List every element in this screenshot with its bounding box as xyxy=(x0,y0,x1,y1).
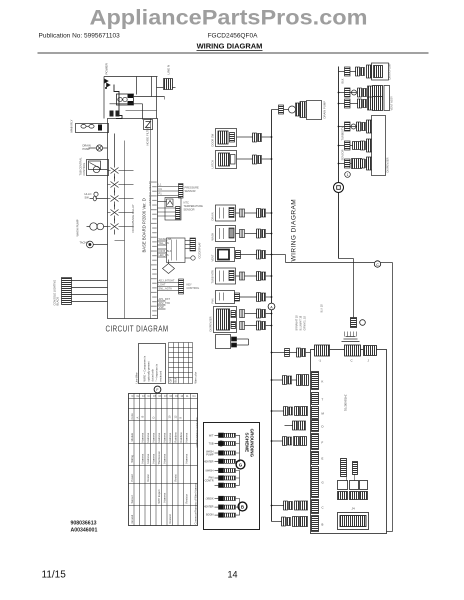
svg-text:CONTROL: CONTROL xyxy=(82,162,86,175)
svg-text:C: C xyxy=(351,359,353,363)
svg-text:SNL_AGTA: SNL_AGTA xyxy=(159,287,173,291)
svg-text:/WASH: /WASH xyxy=(205,470,213,473)
svg-text:DOOR SW: DOOR SW xyxy=(211,133,215,146)
svg-text:Harness: Harness xyxy=(152,453,156,463)
svg-text:DRAIN: DRAIN xyxy=(211,212,215,220)
svg-text:FAN: FAN xyxy=(211,298,215,303)
svg-text:C: C xyxy=(376,263,379,267)
svg-text:Module: Module xyxy=(130,432,134,441)
svg-text:FGCD2456QF0A: FGCD2456QF0A xyxy=(208,33,259,40)
svg-text:P1: P1 xyxy=(159,192,163,196)
svg-text:Harness: Harness xyxy=(141,432,145,442)
svg-text:F: F xyxy=(322,441,324,445)
svg-text:Harness: Harness xyxy=(146,432,150,442)
svg-text:Power: Power xyxy=(130,474,134,481)
svg-text:MAIN RLY: MAIN RLY xyxy=(70,119,74,132)
svg-text:NTC: NTC xyxy=(184,201,189,205)
svg-text:FID B_BLK: FID B_BLK xyxy=(159,249,172,253)
svg-text:Publication No: 5995671103: Publication No: 5995671103 xyxy=(39,33,121,40)
svg-text:GENERAL RELAY: GENERAL RELAY xyxy=(148,181,152,206)
svg-text:1: 1 xyxy=(347,173,349,177)
svg-text:optionally present: optionally present xyxy=(147,361,151,382)
svg-text:LINE N: LINE N xyxy=(167,65,171,75)
svg-text:C: C xyxy=(322,506,324,510)
svg-text:WASH PUMP: WASH PUMP xyxy=(76,219,80,236)
svg-text:SENSOR: SENSOR xyxy=(184,208,195,212)
svg-text:AP2_TXD: AP2_TXD xyxy=(159,301,171,305)
svg-text:PRESSURE: PRESSURE xyxy=(185,186,200,190)
svg-text:D: D xyxy=(152,417,156,419)
svg-text:ADJ_INTGHT: ADJ_INTGHT xyxy=(159,279,175,283)
svg-text:* = Important is: * = Important is xyxy=(155,363,159,381)
svg-text:VENT ASSY: VENT ASSY xyxy=(390,96,394,111)
svg-text:LGHT: LGHT xyxy=(159,283,166,287)
svg-text:HEATER: HEATER xyxy=(204,461,214,464)
svg-text:WIRING DIAGRAM: WIRING DIAGRAM xyxy=(197,42,263,51)
svg-text:CC/DISPLAY: CC/DISPLAY xyxy=(198,242,202,259)
svg-text:TURBIDITY: TURBIDITY xyxy=(341,127,345,141)
svg-text:D: D xyxy=(322,425,324,429)
svg-text:TSB: TSB xyxy=(209,443,214,446)
svg-text:DRAIN PUMP: DRAIN PUMP xyxy=(323,101,327,119)
svg-text:POWER: POWER xyxy=(105,62,109,74)
svg-text:Thermostat: Thermostat xyxy=(157,451,161,464)
svg-text:LED_RS: LED_RS xyxy=(159,253,169,257)
svg-text:Conn: Conn xyxy=(130,413,134,420)
svg-text:K: K xyxy=(322,380,324,384)
svg-text:CONTROL: CONTROL xyxy=(187,286,200,290)
svg-text:LATCH: LATCH xyxy=(211,160,215,168)
svg-text:-1: -1 xyxy=(319,359,322,363)
svg-text:WASH_AB: WASH_AB xyxy=(159,237,172,241)
svg-text:BLK: BLK xyxy=(341,78,345,83)
svg-text:CONTR: CONTR xyxy=(205,480,214,483)
svg-text:Harness: Harness xyxy=(152,432,156,442)
svg-text:G: G xyxy=(322,481,324,485)
svg-text:E: E xyxy=(322,457,324,461)
svg-text:Harness: Harness xyxy=(157,432,161,442)
svg-text:restricted: restricted xyxy=(159,370,163,381)
svg-text:AppliancePartsPros.com: AppliancePartsPros.com xyxy=(90,6,368,30)
svg-text:CONSOLE LIGHTING: CONSOLE LIGHTING xyxy=(53,280,57,306)
svg-text:VENT: VENT xyxy=(211,254,215,261)
svg-text:BLU/WHT 18: BLU/WHT 18 xyxy=(300,315,303,330)
svg-text:908036613: 908036613 xyxy=(71,521,97,527)
svg-text:TACHO: TACHO xyxy=(80,241,89,245)
svg-text:WTP Expert: WTP Expert xyxy=(157,489,161,503)
svg-text:B: B xyxy=(322,523,324,527)
svg-text:WASH: WASH xyxy=(211,233,215,241)
svg-text:BASE BOARD P/2006 Ver. D: BASE BOARD P/2006 Ver. D xyxy=(142,198,147,252)
svg-text:WIRING DIAGRAM: WIRING DIAGRAM xyxy=(291,199,298,262)
svg-text:BRN/WHT 18: BRN/WHT 18 xyxy=(296,315,299,331)
svg-text:11/15: 11/15 xyxy=(42,570,67,581)
svg-text:KEY: KEY xyxy=(187,283,192,287)
svg-text:DISPENSER: DISPENSER xyxy=(209,316,213,331)
svg-text:DRAIN PUMP: DRAIN PUMP xyxy=(388,63,392,80)
svg-text:Resist: Resist xyxy=(146,474,150,481)
svg-text:TUB CENTRAL: TUB CENTRAL xyxy=(79,157,83,176)
svg-text:DOOR/BAKE RELAY: DOOR/BAKE RELAY xyxy=(131,204,135,232)
svg-text:HI-LO: HI-LO xyxy=(85,192,92,196)
svg-text:Resistor: Resistor xyxy=(168,514,172,524)
svg-text:TEMPERATURE: TEMPERATURE xyxy=(184,204,204,208)
svg-text:A: A xyxy=(136,417,140,419)
svg-text:14: 14 xyxy=(228,570,238,580)
svg-text:GRY: GRY xyxy=(169,377,173,383)
svg-text:Harness: Harness xyxy=(168,432,172,442)
svg-text:Connector/Harness of Wire Harn: Connector/Harness of Wire Harness xyxy=(194,482,198,524)
svg-text:HEATER: HEATER xyxy=(204,506,214,509)
svg-text:PUMP: PUMP xyxy=(206,454,214,457)
svg-text:W/T: W/T xyxy=(209,435,214,438)
svg-text:PUMP: PUMP xyxy=(83,147,91,151)
svg-text:Harness: Harness xyxy=(163,492,167,502)
svg-text:T: T xyxy=(322,398,324,402)
svg-text:Harness: Harness xyxy=(185,453,189,463)
svg-text:VSP: VSP xyxy=(159,305,164,309)
svg-text:WIRE = Component is: WIRE = Component is xyxy=(143,355,147,381)
svg-text:dotted with: dotted with xyxy=(151,368,155,381)
svg-text:Rainbow: Rainbow xyxy=(179,432,183,442)
svg-text:Wiring: Wiring xyxy=(130,455,134,463)
svg-text:Line Wire: Line Wire xyxy=(135,372,139,384)
svg-text:/J/BOX: /J/BOX xyxy=(206,498,214,501)
svg-text:BLK: BLK xyxy=(174,377,178,382)
svg-text:Harness: Harness xyxy=(163,432,167,442)
svg-text:SW: SW xyxy=(85,195,90,199)
svg-text:AP1_RXT: AP1_RXT xyxy=(159,297,171,301)
svg-text:SCHEME: SCHEME xyxy=(245,433,250,453)
svg-text:DRAIN: DRAIN xyxy=(83,144,91,148)
svg-text:YEL_GN: YEL_GN xyxy=(159,241,169,245)
svg-text:B: B xyxy=(241,505,244,510)
svg-text:J4: J4 xyxy=(352,507,356,511)
svg-text:N1: N1 xyxy=(159,187,163,191)
svg-text:NOISE FILTER: NOISE FILTER xyxy=(146,127,150,146)
svg-text:SENSOR: SENSOR xyxy=(341,149,345,160)
svg-text:Resist: Resist xyxy=(174,474,178,481)
svg-text:TURB MTR: TURB MTR xyxy=(211,270,215,284)
svg-text:SENSOR: SENSOR xyxy=(185,189,196,193)
svg-text:BOON: BOON xyxy=(206,514,214,517)
svg-text:Wire color: Wire color xyxy=(194,372,198,384)
svg-text:2453600701: 2453600701 xyxy=(344,395,348,412)
svg-text:CIRCUIT DIAGRAM: CIRCUIT DIAGRAM xyxy=(106,325,169,334)
svg-text:Harness: Harness xyxy=(163,453,167,463)
svg-text:Resistor: Resistor xyxy=(185,494,189,504)
svg-text:DISPENSER: DISPENSER xyxy=(386,157,390,172)
svg-text:Sensor: Sensor xyxy=(130,495,134,503)
svg-text:Rainbow: Rainbow xyxy=(174,432,178,442)
svg-text:Harness: Harness xyxy=(185,432,189,442)
svg-text:G: G xyxy=(239,463,243,468)
svg-text:B: B xyxy=(141,416,145,418)
svg-text:A00346001: A00346001 xyxy=(71,528,98,534)
svg-text:BLK 18: BLK 18 xyxy=(321,304,324,313)
svg-text:Harness: Harness xyxy=(146,453,150,463)
svg-text:Harness: Harness xyxy=(141,453,145,463)
svg-text:Ground: Ground xyxy=(130,514,134,523)
svg-text:GRN/YEL 18: GRN/YEL 18 xyxy=(304,316,307,331)
